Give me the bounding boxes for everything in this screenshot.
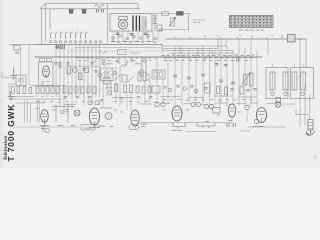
tiny labels above bus y39 [204, 35, 284, 38]
squiggle row under resistors [36, 95, 59, 97]
choke R psu4 [301, 72, 306, 90]
component labels row left [76, 58, 156, 61]
power supply box right [291, 68, 314, 99]
resistor R vertical 2 [79, 73, 82, 80]
wire bottom bus mid y122.8 [140, 122, 231, 124]
wire right edge verticals [300, 39, 310, 134]
feedback box label [81, 125, 95, 131]
label EBF11 [89, 127, 100, 129]
bracket component bottom [173, 123, 185, 129]
wire bus y57 [35, 56, 262, 58]
choke center lines [273, 64, 304, 90]
wire into fuse [296, 110, 308, 115]
component labels row right [163, 58, 253, 61]
output transformer box [110, 14, 152, 32]
wire from loop down to left bus [41, 9, 43, 45]
resistor R small [130, 52, 140, 54]
page number mark [314, 156, 317, 158]
coil squiggles mid [101, 61, 121, 65]
wire y103 left [16, 102, 44, 104]
small circle node mid [59, 65, 62, 68]
wire left margin vertical [9, 84, 16, 96]
label dashes y101 left [36, 102, 155, 105]
paper background [0, 0, 320, 168]
capacitor C box [118, 50, 127, 55]
transformer Tr secondary winding [142, 17, 147, 29]
wire vertical x107 [107, 4, 109, 44]
label ECH11 [40, 125, 49, 127]
resistor R tuning [115, 84, 118, 92]
wire drops to tube row [21, 45, 258, 128]
node dot bus [299, 38, 301, 40]
osc box label dashes [41, 82, 50, 84]
socket dots [107, 115, 110, 119]
tube V6 [228, 104, 236, 117]
IF transformer box [152, 70, 165, 79]
resistor row mid-left y86 [63, 86, 151, 94]
dark dashes under transformer row [111, 41, 156, 44]
switch bank wafer circles [49, 41, 101, 43]
tangle components mid [102, 57, 149, 82]
potentiometer P tone [169, 18, 176, 27]
transformer Tr core [133, 16, 140, 30]
diode circle D1 [74, 110, 80, 116]
wire antenna feed from edge [2, 72, 11, 77]
tuning pack box [101, 68, 114, 81]
wire ladder y53 [170, 52, 233, 54]
mains plug P1 [69, 10, 73, 14]
wire ticks on bus y39 [175, 37, 282, 40]
component row y86-96 far left [12, 87, 32, 94]
tuning cap section wires [103, 66, 120, 96]
choke R psu1 [270, 72, 275, 90]
wire ladder risers [162, 39, 306, 68]
label AM bottom [58, 124, 147, 127]
small circles above V5 [155, 102, 165, 106]
resistor R right2 [250, 73, 254, 86]
choke R psu3 [292, 72, 297, 90]
wire ladder y50.6 [162, 50, 233, 52]
wire ladder y46 [162, 45, 226, 47]
wire y99 left [10, 98, 63, 100]
psu node circles [271, 92, 305, 96]
resistor bank below oscillator [36, 87, 59, 94]
socket circle V7 [254, 119, 258, 123]
capacitor C right comb [219, 80, 235, 84]
coil L1 in antenna lead [95, 5, 104, 8]
socket circle below V3 [105, 113, 112, 120]
electrolytic C dark [177, 12, 184, 16]
bracket component bottom 2 [197, 123, 215, 129]
label dashes bottom row [36, 109, 241, 116]
capacitor marks comb-left [55, 63, 98, 73]
resistor box under pair3 [213, 108, 221, 114]
contact circles under transformer [112, 35, 157, 40]
earth symbol lower [8, 92, 14, 100]
power supply box left [266, 68, 288, 99]
wire segments y97-104 [10, 97, 152, 105]
resistor R vertical [67, 66, 70, 74]
chassis hook symbol [306, 131, 315, 136]
mains plug P2 [82, 10, 86, 14]
coil L2 small [100, 51, 107, 53]
capacitor C on comb 2 [187, 77, 191, 79]
filter rect 2 [47, 59, 52, 62]
wire y29.5 [162, 29, 189, 31]
trimmer circle [108, 91, 112, 95]
resistor R near choke [157, 25, 162, 31]
extra tangle parts 2 [98, 71, 160, 93]
table caption [239, 29, 264, 31]
extra comps tube row left [45, 104, 136, 129]
tube V3 EBF11 [90, 108, 100, 125]
antenna input symbol [11, 68, 17, 79]
component labels row right extra [162, 55, 254, 62]
trimmer cap C [73, 68, 78, 73]
capacitor inside box [18, 77, 23, 84]
capacitor C on comb 3 [201, 74, 205, 76]
wire bottom left y127 [12, 126, 80, 128]
capacitor pair marks bottom [227, 123, 236, 127]
trimmer pack below V2 [41, 127, 50, 133]
wire frame left vertical [45, 3, 47, 41]
small rects above V3 [52, 101, 112, 108]
capacitor C in top wire [162, 12, 169, 15]
filter rects top [40, 59, 45, 62]
wire vertical x188.5 [188, 14, 190, 31]
choke winding right of box [153, 15, 157, 32]
small circles pair2 [191, 103, 201, 107]
tube data table [230, 16, 274, 28]
resistor R right1 [244, 75, 248, 86]
dark marks above right comb [216, 64, 228, 67]
small box comb-left [85, 68, 89, 73]
capsule component [129, 125, 139, 130]
wire dashed AVC line [70, 50, 160, 52]
small circle right [245, 105, 249, 109]
tube V7 AZ11 rectifier [257, 108, 267, 123]
input trimmer parts left [10, 45, 35, 54]
wire comb mid-left [56, 45, 100, 98]
resistor R tuning2 [124, 85, 127, 93]
label AZ11 [253, 126, 263, 128]
svg-text:T 7000 GWK: T 7000 GWK [6, 104, 16, 162]
resistor R box mid [205, 83, 211, 93]
label dashes under tubes right [172, 121, 232, 131]
wire bottom bus right y127 [248, 126, 285, 128]
wire comb mid-right [168, 46, 210, 98]
wire second bus y47.2 [75, 46, 160, 48]
small circles pair3 [204, 104, 213, 108]
wire main bus left y44.5 [35, 44, 162, 46]
fuse box right [308, 120, 313, 131]
tube V1 triode-hexode [43, 66, 50, 78]
tube V2 ECH11 [41, 110, 48, 123]
label Wellenschalter [193, 20, 205, 23]
choke R psu2 [283, 72, 288, 90]
capacitor marks y96 mid-left [64, 97, 152, 102]
component cluster right y86-96 [168, 86, 243, 95]
wire segments right y96-104 [160, 96, 256, 98]
dark caps under transformer [116, 33, 147, 35]
wire vertical x50 [49, 9, 51, 30]
speaker LS [118, 17, 127, 29]
contact row below transformer [113, 31, 158, 42]
wire connectors bottom right [160, 103, 296, 132]
antenna coupling box [16, 75, 26, 86]
resistor R tuning3 [130, 85, 133, 93]
oscillator section box [39, 62, 54, 86]
wire main bus right y39 [166, 38, 306, 40]
wire comb far right [215, 39, 257, 100]
trimmer cluster [55, 45, 64, 49]
capacitor marks right y88 [164, 86, 257, 92]
wire antenna loop top [40, 3, 140, 9]
arrow through resistor R right1 [241, 74, 250, 86]
terminal pins [97, 9, 104, 12]
tube V4 EF11 [131, 110, 139, 126]
capacitor C on comb 1 [173, 75, 177, 77]
wire y13.5 to right [152, 13, 190, 15]
lamp with cross [275, 98, 281, 108]
wire bus y85.5 [30, 85, 64, 87]
tube V5 ECL11 [172, 106, 182, 121]
switch S mains [288, 35, 296, 43]
label dashes right y99 [163, 99, 252, 102]
wire ladder y48.3 [162, 47, 218, 49]
switch bank contacts [51, 32, 88, 39]
wire y66 mid [72, 65, 100, 67]
